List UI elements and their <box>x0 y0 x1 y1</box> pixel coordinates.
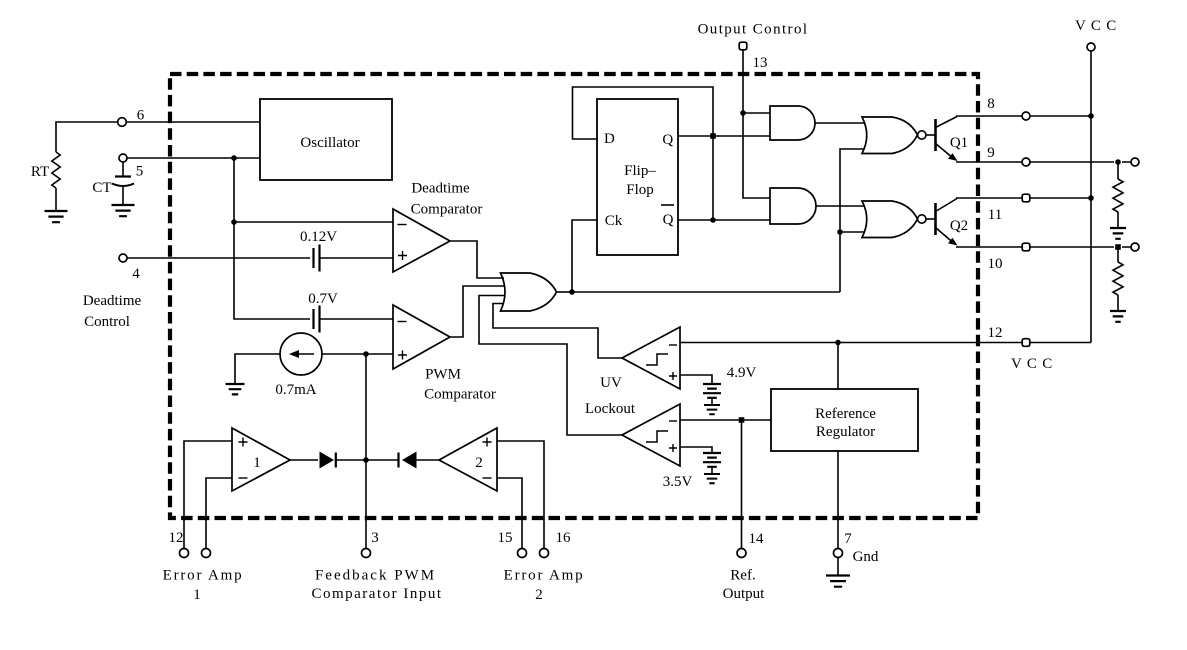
svg-text:7: 7 <box>844 531 852 547</box>
junction pin9/load R1 <box>1115 159 1121 165</box>
pin 4 label <box>132 266 140 282</box>
junction ref output node <box>739 417 745 423</box>
Deadtime Comparator label <box>411 181 483 218</box>
wire pin 13 to AND gates <box>743 50 770 198</box>
wire pin 8 (collector Q1) <box>956 115 1092 117</box>
pin 10 terminal <box>1022 243 1030 251</box>
voltage source 4.9V <box>703 384 721 398</box>
wire sawtooth rail <box>234 158 310 319</box>
pin 7 terminal <box>834 549 843 558</box>
wire ground to current source <box>235 354 280 383</box>
terminal emitter-2 output <box>1131 243 1139 251</box>
svg-text:Flop: Flop <box>626 182 654 198</box>
svg-text:1: 1 <box>253 455 261 471</box>
wire R1 top <box>1117 162 1119 179</box>
nor-gate N1 <box>862 117 926 154</box>
VCC label top <box>1075 18 1117 34</box>
junction pin11/VCC <box>1088 195 1094 201</box>
PWM Comparator label <box>424 367 496 403</box>
0.7mA label <box>275 382 316 398</box>
svg-text:Deadtime: Deadtime <box>83 293 142 309</box>
wire 4.9V to ground <box>711 398 713 405</box>
wire OR output <box>557 291 573 293</box>
junction pin12/reference regulator <box>835 340 841 346</box>
svg-text:Q: Q <box>663 212 674 228</box>
wire pin 12 to VCC rail <box>1030 342 1091 344</box>
deadtime − symbol <box>398 224 407 226</box>
pin 9 terminal <box>1022 158 1030 166</box>
wire pin 10 (emitter Q2) <box>956 246 1131 248</box>
svg-text:2: 2 <box>535 587 543 603</box>
transistor Q2 <box>936 199 958 246</box>
wire pin 7 ground stub <box>837 558 839 576</box>
svg-text:Q: Q <box>662 132 673 148</box>
svg-text:1: 1 <box>193 587 201 603</box>
wire current source to PWM + <box>322 353 393 355</box>
wire pin 9 (emitter Q1) <box>956 161 1131 163</box>
label Q-bar <box>661 205 674 228</box>
pin 13 terminal <box>739 42 747 50</box>
op-amp error amp 1 <box>232 428 290 491</box>
wire AND1 output <box>815 122 864 124</box>
wire pin 6 to oscillator <box>126 121 260 123</box>
wire deadtime output <box>450 241 504 278</box>
svg-text:8: 8 <box>987 96 995 112</box>
svg-text:0.12V: 0.12V <box>300 229 337 245</box>
ground (current source) <box>226 384 245 394</box>
wire 3.5V to ground <box>711 467 713 474</box>
UV upper hysteresis symbol <box>646 354 668 365</box>
wire UV1 + to 4.9V <box>680 375 712 384</box>
wire pin 2 to EA1 − <box>206 478 232 549</box>
svg-text:Gnd: Gnd <box>853 549 879 565</box>
pins 1 2 label <box>169 530 184 546</box>
wire PWM output <box>450 286 504 337</box>
svg-text:9: 9 <box>987 145 995 161</box>
Q1 label <box>950 135 968 151</box>
label D <box>604 131 615 147</box>
UV Lockout label <box>585 375 636 417</box>
UV lower − symbol <box>669 420 677 422</box>
svg-text:Error Amp: Error Amp <box>163 568 244 584</box>
PWM − symbol <box>398 321 407 323</box>
svg-text:D: D <box>604 131 615 147</box>
svg-text:Comparator: Comparator <box>411 202 483 218</box>
pin 11 label <box>988 207 1002 223</box>
pin 14 label <box>749 531 765 547</box>
junction pin13/AND1 <box>740 110 746 116</box>
Flip-Flop label <box>624 163 656 198</box>
diode D1 <box>320 452 336 469</box>
pin 14 terminal <box>737 549 746 558</box>
wire UV1 − / pin 12 <box>680 342 1022 344</box>
VCC label pin 12 <box>1011 356 1053 372</box>
svg-text:UV: UV <box>600 375 622 391</box>
wire ref output to pin 14 <box>741 420 743 549</box>
svg-text:V C C: V C C <box>1075 18 1117 34</box>
pin 6 label <box>137 108 145 124</box>
svg-text:RT: RT <box>31 164 49 180</box>
ground (3.5V) <box>704 474 720 483</box>
pin 2 terminal <box>202 549 211 558</box>
resistor R1 <box>1113 179 1123 212</box>
svg-text:16: 16 <box>556 530 572 546</box>
svg-text:2: 2 <box>475 455 483 471</box>
wire Q to AND1 <box>678 135 770 137</box>
svg-text:Comparator: Comparator <box>424 387 496 403</box>
pin 8 terminal <box>1022 112 1030 120</box>
junction feedback/lower NOR <box>837 229 843 235</box>
svg-text:Oscillator: Oscillator <box>300 135 359 151</box>
wire pin 5 to oscillator <box>127 157 260 159</box>
wire N2 to Q2 base <box>926 218 935 220</box>
svg-text:3: 3 <box>371 530 379 546</box>
comparator UV upper <box>622 327 680 389</box>
svg-text:0.7mA: 0.7mA <box>275 382 316 398</box>
svg-text:Reference: Reference <box>815 406 876 422</box>
svg-text:Output Control: Output Control <box>698 22 809 38</box>
3.5V label <box>663 474 693 490</box>
wire pin 11 (collector Q2) <box>956 197 1092 199</box>
svg-text:Feedback PWM: Feedback PWM <box>315 568 436 584</box>
svg-text:0.7V: 0.7V <box>308 291 338 307</box>
wire D2 to EA2 output <box>417 459 440 461</box>
resistor RT <box>52 152 60 188</box>
UV upper − symbol <box>669 344 677 346</box>
EA1 − symbol <box>239 477 248 479</box>
pin 15 terminal <box>518 549 527 558</box>
Oscillator label <box>300 135 359 151</box>
voltage source 0.7V <box>314 306 320 333</box>
wire deadtime − input <box>234 221 393 223</box>
wire pin 3 feedback input <box>365 354 367 549</box>
and-gate A2 <box>770 188 816 224</box>
0.12V label <box>300 229 337 245</box>
pin 16 terminal <box>540 549 549 558</box>
Error Amp 2 label <box>504 568 585 604</box>
Ref. Output label <box>723 568 766 603</box>
pin 1 terminal <box>180 549 189 558</box>
deadtime + symbol <box>398 251 407 260</box>
wire pin 16 to EA2 + <box>497 441 544 549</box>
op-amp deadtime comparator <box>393 209 450 272</box>
RT label <box>31 164 49 180</box>
ground (pin 7) <box>826 576 850 587</box>
wire 0.12V to deadtime + <box>320 257 394 259</box>
wire R2 to ground <box>1117 295 1119 311</box>
pin 3 terminal <box>362 549 371 558</box>
svg-text:14: 14 <box>749 531 765 547</box>
wire reference regulator to pin 12 node <box>837 343 839 390</box>
wire EA1 output to D1 <box>290 459 318 461</box>
Gnd label <box>853 549 879 565</box>
wire Q-bar to AND2 <box>678 219 770 221</box>
wire D loop <box>573 87 714 220</box>
diode D2 <box>399 452 417 469</box>
wire RT to ground <box>55 188 57 211</box>
svg-text:12: 12 <box>988 325 1003 341</box>
svg-text:Control: Control <box>84 314 130 330</box>
Feedback PWM Comparator Input label <box>311 568 442 603</box>
svg-text:Q1: Q1 <box>950 135 968 151</box>
ground (RT) <box>45 211 68 222</box>
EA2 label <box>475 455 483 471</box>
svg-text:10: 10 <box>988 256 1003 272</box>
pin 3 label <box>371 530 379 546</box>
voltage source 3.5V <box>703 453 721 467</box>
voltage source 0.12V <box>314 245 320 272</box>
junction pin5 sawtooth node <box>231 155 237 161</box>
wire CT top <box>122 162 124 177</box>
junction pin8/VCC <box>1088 113 1094 119</box>
wire UV2 − to reference regulator <box>680 419 771 421</box>
pin 15 label <box>498 530 513 546</box>
ground (4.9V) <box>704 405 720 414</box>
svg-text:Output: Output <box>723 586 766 602</box>
svg-text:4: 4 <box>132 266 140 282</box>
pin 12 label <box>988 325 1003 341</box>
pin 5 label <box>136 164 144 180</box>
wire feedback to NOR gates <box>572 149 864 292</box>
pin 10 label <box>988 256 1003 272</box>
wire UV2 + to 3.5V <box>680 447 712 453</box>
wire pin13 to AND1 top input <box>743 112 770 114</box>
wire clock to flip-flop Ck <box>572 220 597 292</box>
VCC terminal <box>1087 43 1095 51</box>
wire pin 6 / RT <box>56 122 118 152</box>
EA1 + symbol <box>239 438 248 447</box>
label Q <box>662 132 673 148</box>
wire D1 to feedback node <box>336 459 399 461</box>
pin 4 terminal <box>119 254 127 262</box>
pin 13 label <box>753 55 768 71</box>
svg-text:Error Amp: Error Amp <box>504 568 585 584</box>
current source 0.7mA <box>280 333 322 375</box>
svg-text:12: 12 <box>169 530 184 546</box>
and-gate A1 <box>770 106 815 140</box>
svg-text:4.9V: 4.9V <box>727 365 757 381</box>
pin 7 label <box>844 531 852 547</box>
or-gate (PWM OR) <box>501 273 557 311</box>
svg-text:5: 5 <box>136 164 144 180</box>
Q2 label <box>950 218 968 234</box>
4.9V label <box>727 365 757 381</box>
wire pin 1 to EA1 + <box>184 441 232 549</box>
junction pin10/load R2 <box>1115 244 1121 250</box>
wire AND2 output <box>816 205 864 207</box>
Deadtime Control label <box>83 293 142 330</box>
svg-text:13: 13 <box>753 55 768 71</box>
junction OR output <box>569 289 575 295</box>
Error Amp 1 label <box>163 568 244 604</box>
wire feedback to lower NOR input <box>840 231 864 233</box>
junction sawtooth/deadtime − <box>231 219 237 225</box>
svg-text:Flip–: Flip– <box>624 163 656 179</box>
pin 6 terminal <box>118 118 127 127</box>
Output Control label <box>698 22 809 38</box>
wire UV upper to OR input <box>493 304 622 359</box>
wire pin 4 to 0.12V source <box>127 257 310 259</box>
ground (CT) <box>112 205 135 216</box>
UV lower hysteresis symbol <box>646 431 668 442</box>
wire UV lower to OR input <box>479 296 622 436</box>
PWM + symbol <box>398 351 407 360</box>
CT label <box>92 180 111 196</box>
Reference Regulator label <box>815 406 876 440</box>
svg-text:PWM: PWM <box>425 367 461 383</box>
oscillator box <box>260 99 392 180</box>
pin 5 terminal <box>119 154 127 162</box>
wire pin 15 to EA2 − <box>497 478 522 549</box>
terminal emitter-1 output <box>1131 158 1139 166</box>
svg-text:CT: CT <box>92 180 111 196</box>
EA1 label <box>253 455 261 471</box>
capacitor CT <box>112 177 134 187</box>
svg-text:15: 15 <box>498 530 513 546</box>
svg-text:Deadtime: Deadtime <box>411 181 470 197</box>
wire VCC rail <box>1090 51 1092 343</box>
junction D-loop/Q-bar <box>710 217 716 223</box>
transistor Q1 <box>936 117 958 162</box>
svg-text:V C C: V C C <box>1011 356 1053 372</box>
0.7V label <box>308 291 338 307</box>
pin 9 label <box>987 145 995 161</box>
junction feedback node pin 3 <box>363 457 369 463</box>
nor-gate N2 <box>862 201 926 238</box>
svg-text:Regulator: Regulator <box>816 424 875 440</box>
EA2 − symbol <box>483 477 492 479</box>
ground (R2) <box>1110 311 1126 322</box>
junction PWM + / pin 3 <box>363 351 369 357</box>
pin 11 terminal <box>1022 194 1030 202</box>
wire R2 top <box>1117 247 1119 262</box>
UV lower + symbol <box>669 444 677 452</box>
wire CT to ground <box>122 187 124 205</box>
junction D-loop/Q <box>710 133 716 139</box>
resistor R2 <box>1113 262 1123 295</box>
UV upper + symbol <box>669 372 677 380</box>
svg-text:3.5V: 3.5V <box>663 474 693 490</box>
svg-text:Lockout: Lockout <box>585 401 636 417</box>
dashed IC boundary <box>170 74 978 518</box>
EA2 + symbol <box>483 438 492 447</box>
wire reference regulator to pin 7 <box>837 451 839 549</box>
flip-flop box <box>597 99 678 255</box>
comparator UV lower <box>622 404 680 466</box>
svg-text:Ck: Ck <box>605 213 623 229</box>
pin 12 terminal <box>1022 339 1030 347</box>
svg-text:Q2: Q2 <box>950 218 968 234</box>
svg-text:6: 6 <box>137 108 145 124</box>
reference regulator box <box>771 389 918 451</box>
op-amp error amp 2 <box>439 428 497 491</box>
pin 16 label <box>556 530 572 546</box>
svg-text:Comparator Input: Comparator Input <box>311 586 442 602</box>
op-amp PWM comparator <box>393 305 450 369</box>
wire R1 to ground <box>1117 212 1119 228</box>
label Ck <box>605 213 623 229</box>
wire 0.7V to PWM − <box>320 318 394 320</box>
ground (R1) <box>1110 228 1126 239</box>
pin 8 label <box>987 96 995 112</box>
svg-text:11: 11 <box>988 207 1002 223</box>
svg-text:Ref.: Ref. <box>730 568 755 584</box>
wire N1 to Q1 base <box>926 134 935 136</box>
